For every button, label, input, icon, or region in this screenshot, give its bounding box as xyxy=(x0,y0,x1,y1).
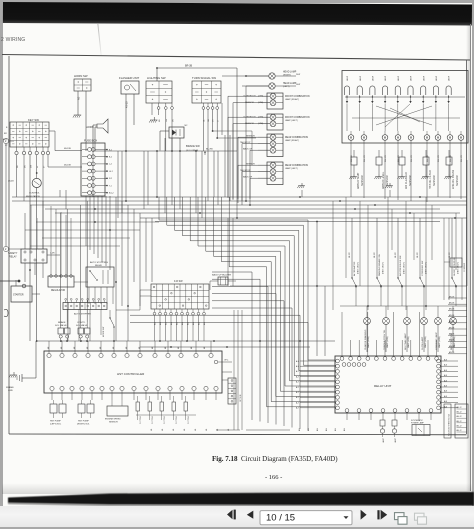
sensor ENGINE SPEED SENSOR xyxy=(105,400,128,424)
label (solenoid starting sw) xyxy=(444,404,451,438)
svg-text:(LEFT) SOL: (LEFT) SOL xyxy=(50,424,62,426)
svg-text:RELAY: RELAY xyxy=(95,264,103,267)
svg-text:FRAME: FRAME xyxy=(6,386,14,389)
connector AUTO STEPPER xyxy=(63,298,107,341)
svg-text:2: 2 xyxy=(5,248,7,251)
svg-text:AW: AW xyxy=(316,428,319,431)
svg-text:AIR CLEANER: AIR CLEANER xyxy=(405,172,408,189)
svg-text:AW-5B: AW-5B xyxy=(449,295,455,298)
resistor CONTROL RESISTANCE xyxy=(8,178,41,187)
switch LIGHTING SW xyxy=(146,76,175,151)
svg-text:4B: 4B xyxy=(178,346,180,349)
svg-text:(FA35 ONLY): (FA35 ONLY) xyxy=(403,262,406,274)
svg-text:STEERING SW: STEERING SW xyxy=(422,260,424,276)
svg-text:AB--12: AB--12 xyxy=(457,406,462,409)
svg-text:AB--12: AB--12 xyxy=(457,411,462,414)
wires (lamp feeders) xyxy=(222,75,270,205)
buzzer BACK UP BUZZER xyxy=(210,274,236,291)
header text WIRING xyxy=(1,37,25,43)
svg-text:LAMP: LAMP xyxy=(422,75,425,81)
wires (switch drops to buses) xyxy=(60,135,237,218)
svg-text:CUTTING: CUTTING xyxy=(140,415,142,424)
lamp HEAD LAMP (LEFT) xyxy=(242,82,300,89)
svg-text:LAMP: LAMP xyxy=(448,75,451,81)
svg-text:AW-5B: AW-5B xyxy=(449,320,455,323)
solenoid BRAKE SOL VALVE xyxy=(55,321,70,342)
svg-text:AW: AW xyxy=(334,428,337,431)
wires (right verticals) xyxy=(346,160,467,310)
svg-text:AW: AW xyxy=(298,428,301,431)
page number input box xyxy=(260,511,352,525)
svg-text:BR-3B: BR-3B xyxy=(185,65,192,68)
button last page xyxy=(377,510,387,520)
lamp GLOW LAMP xyxy=(421,306,428,352)
svg-text:WL-YR: WL-YR xyxy=(438,155,440,162)
svg-text:TURN SIGNAL SW: TURN SIGNAL SW xyxy=(192,76,216,80)
relay (systematic power) xyxy=(411,419,430,436)
wire labels (HST top) xyxy=(48,346,206,349)
svg-text:LAMP (RIGHT): LAMP (RIGHT) xyxy=(285,98,299,101)
svg-text:L4-Y: L4-Y xyxy=(109,171,114,173)
svg-text:4B-13B: 4B-13B xyxy=(64,165,71,167)
figure caption xyxy=(212,455,338,463)
svg-text:AW-5B: AW-5B xyxy=(449,339,455,342)
svg-text:LAMP: LAMP xyxy=(372,75,375,81)
icon new window xyxy=(395,513,408,525)
svg-text:BL-3W: BL-3W xyxy=(206,149,214,151)
flasher unit xyxy=(119,76,139,151)
node 2 (left edge lower) xyxy=(4,309,8,316)
wires (solenoid feeders) xyxy=(61,201,87,322)
svg-text:HEAD LAMP: HEAD LAMP xyxy=(283,71,297,74)
wires (mid feeders down) xyxy=(115,197,152,341)
svg-text:LAMP (LEFT): LAMP (LEFT) xyxy=(285,167,298,170)
lamp NEUTRAL LAMP xyxy=(404,306,411,352)
svg-text:(24W): (24W) xyxy=(258,102,264,104)
svg-text:AUTO STEPPER: AUTO STEPPER xyxy=(74,313,91,316)
svg-text:10 / 15: 10 / 15 xyxy=(266,513,295,524)
wires (fuse box feeders down) xyxy=(86,196,110,270)
sensor ENG OIL PRESS xyxy=(444,150,458,189)
switch MODE SW xyxy=(103,310,115,341)
toolbar icons xyxy=(0,505,474,529)
svg-text:LAMP: LAMP xyxy=(384,75,387,81)
svg-text:SOL VALVE: SOL VALVE xyxy=(76,324,88,327)
wires (left feeders down) xyxy=(29,188,37,342)
svg-text:LAMP (24W): LAMP (24W) xyxy=(438,336,441,348)
svg-text:1-5R: 1-5R xyxy=(50,253,55,255)
svg-text:LAMP: LAMP xyxy=(382,437,385,443)
svg-text:AB--12: AB--12 xyxy=(457,420,462,423)
svg-text:SHORT COUPLER: SHORT COUPLER xyxy=(454,257,456,276)
svg-text:(24W): (24W) xyxy=(258,96,264,98)
wire bundle B (center to bottom) xyxy=(130,272,308,431)
wires (center verticals) xyxy=(234,310,242,430)
svg-text:(FA35 ONLY): (FA35 ONLY) xyxy=(357,262,360,274)
wire bus 2 xyxy=(12,200,467,202)
svg-text:REAR COMBINATION: REAR COMBINATION xyxy=(285,164,308,167)
wire (accessory bus) xyxy=(93,149,237,152)
page right edge shadow xyxy=(466,24,471,491)
wires (bottom interconnect) xyxy=(216,372,290,430)
svg-text:RELAY UNIT: RELAY UNIT xyxy=(374,384,392,388)
svg-text:(24W): (24W) xyxy=(258,117,264,119)
svg-text:4B: 4B xyxy=(217,428,219,431)
svg-text:AW-5B: AW-5B xyxy=(449,345,455,348)
svg-text:4B: 4B xyxy=(173,428,175,431)
lamps (relay unit bottom) xyxy=(380,420,397,443)
svg-text:SENSOR: SENSOR xyxy=(361,175,364,186)
svg-text:5B-YR: 5B-YR xyxy=(395,252,397,258)
svg-text:GB: GB xyxy=(208,118,210,122)
svg-text:24W: 24W xyxy=(296,84,300,86)
svg-text:GL: GL xyxy=(204,118,206,122)
page bottom dark wedge xyxy=(0,489,474,509)
ground (harness mid 2) xyxy=(385,183,392,197)
svg-text:OPTION: OPTION xyxy=(240,394,242,402)
svg-text:(24W): (24W) xyxy=(258,123,264,125)
lamp CHARGE WARNING xyxy=(364,306,371,352)
svg-text:2W: 2W xyxy=(31,165,33,168)
svg-text:CONT'D: CONT'D xyxy=(77,322,86,324)
black header bar xyxy=(2,2,471,25)
svg-text:SENSOR: SENSOR xyxy=(245,102,254,104)
switch BRAKE SW xyxy=(186,144,206,155)
button next page xyxy=(361,510,367,520)
svg-text:SOLENOID STARTING SW: SOLENOID STARTING SW xyxy=(448,414,451,436)
svg-text:ST: ST xyxy=(5,145,8,147)
frame ground xyxy=(6,341,36,392)
wire bundle A (buses to relay unit) xyxy=(159,197,335,407)
svg-text:LAMP: LAMP xyxy=(410,75,413,81)
svg-text:GND: GND xyxy=(8,390,13,392)
svg-text:WL-YR: WL-YR xyxy=(364,155,366,162)
svg-text:SENSOR: SENSOR xyxy=(245,123,254,125)
svg-text:HST PUMP: HST PUMP xyxy=(50,421,61,423)
switch SHORT COUPLER xyxy=(449,218,460,306)
svg-text:GY: GY xyxy=(213,118,215,122)
icon window disabled xyxy=(415,513,427,524)
wire bus 1 xyxy=(12,196,467,198)
svg-text:WL-YR: WL-YR xyxy=(461,155,463,162)
svg-text:LAMP: LAMP xyxy=(435,75,438,81)
page fold line xyxy=(97,24,101,55)
svg-text:(FA35 ONLY): (FA35 ONLY) xyxy=(457,262,460,274)
svg-text:HORN: HORN xyxy=(86,125,94,129)
window border top xyxy=(0,0,474,3)
svg-text:4B: 4B xyxy=(204,346,206,349)
svg-text:CHARGE WARNING: CHARGE WARNING xyxy=(364,329,367,350)
wire labels (bottom right row) xyxy=(298,428,346,431)
svg-text:LAMP (24W): LAMP (24W) xyxy=(407,336,410,348)
switch ALTERNATOR xyxy=(349,218,360,306)
svg-text:5B-YR: 5B-YR xyxy=(417,252,419,258)
wires (left cross runs) xyxy=(25,221,159,246)
svg-text:AB--12: AB--12 xyxy=(457,424,462,427)
svg-text:4B: 4B xyxy=(184,428,186,431)
svg-text:4B: 4B xyxy=(151,428,153,431)
window border right xyxy=(472,0,474,529)
svg-text:CUTTING: CUTTING xyxy=(176,415,178,424)
svg-text:4B: 4B xyxy=(162,428,164,431)
window border left xyxy=(0,0,3,529)
svg-text:(RIGHT): (RIGHT) xyxy=(283,74,291,76)
svg-text:(LEFT): (LEFT) xyxy=(283,86,290,88)
svg-text:COUPLER: COUPLER xyxy=(464,262,466,272)
svg-text:CUTTING: CUTTING xyxy=(152,415,154,424)
svg-text:4B: 4B xyxy=(228,428,230,431)
svg-text:2B: 2B xyxy=(17,165,19,168)
svg-text:5B-YR: 5B-YR xyxy=(349,252,351,258)
svg-text:FRONT COMBINATION: FRONT COMBINATION xyxy=(285,116,310,119)
svg-text:LAMP: LAMP xyxy=(359,75,362,81)
svg-text:HORN SW: HORN SW xyxy=(74,74,88,78)
svg-text:4B: 4B xyxy=(165,346,167,349)
svg-text:HST OIL FILTER: HST OIL FILTER xyxy=(429,170,432,189)
svg-text:T-1: T-1 xyxy=(109,185,112,187)
schematic border frame xyxy=(9,56,467,435)
lamp FRONT COMBINATION LAMP (LEFT) xyxy=(243,114,310,130)
connector (HST option) xyxy=(228,378,242,404)
regulator xyxy=(48,206,88,292)
svg-text:4B: 4B xyxy=(152,346,154,349)
svg-text:LAMP (RIGHT): LAMP (RIGHT) xyxy=(285,139,299,142)
svg-text:(RIGHT) SOL: (RIGHT) SOL xyxy=(77,424,90,426)
svg-text:R-2: R-2 xyxy=(109,178,112,180)
svg-text:Bat-2: Bat-2 xyxy=(109,192,114,195)
svg-text:HEAD LAMP: HEAD LAMP xyxy=(283,82,297,85)
ground (harness mid 1) xyxy=(297,183,304,197)
svg-text:CUTTING: CUTTING xyxy=(164,415,166,424)
svg-text:AB--12: AB--12 xyxy=(457,415,462,418)
wires (meter panel to bus) xyxy=(351,150,461,202)
svg-text:B: B xyxy=(6,127,8,129)
relay unit xyxy=(296,312,458,420)
svg-text:LAMP (24W): LAMP (24W) xyxy=(386,336,389,348)
svg-text:KEY SW: KEY SW xyxy=(28,118,39,122)
svg-text:AW-5B: AW-5B xyxy=(449,302,455,305)
motor STARTER xyxy=(0,280,40,302)
switch TURN SIGNAL SW xyxy=(192,76,256,165)
svg-text:A-Y: A-Y xyxy=(296,370,300,373)
svg-text:CUTTING: CUTTING xyxy=(188,415,190,424)
page number xyxy=(265,474,282,481)
page right edge line xyxy=(470,24,471,491)
svg-text:4B: 4B xyxy=(159,119,161,122)
wires (F-R SW left stubs) xyxy=(116,290,151,310)
svg-text:AW-5B: AW-5B xyxy=(449,314,455,317)
svg-text:4B: 4B xyxy=(195,428,197,431)
svg-text:WATER TEMP: WATER TEMP xyxy=(357,172,360,189)
svg-text:4B-13B: 4B-13B xyxy=(64,148,71,150)
svg-text:FUSE BOX: FUSE BOX xyxy=(84,139,97,143)
svg-text:4B: 4B xyxy=(206,428,208,431)
svg-text:3W: 3W xyxy=(166,119,168,122)
switch STEERING SW xyxy=(417,218,428,306)
svg-text:SENSOR: SENSOR xyxy=(433,175,436,186)
header rule / schematic frame top xyxy=(2,55,470,61)
svg-text:AB: AB xyxy=(78,96,81,100)
svg-text:SENSOR: SENSOR xyxy=(109,422,118,424)
svg-text:FRONT COMBINATION: FRONT COMBINATION xyxy=(285,95,310,98)
svg-text:WL-YR: WL-YR xyxy=(385,155,387,162)
wire bus 4 xyxy=(45,208,440,210)
switch PARKING BRAKE SW xyxy=(374,218,385,306)
svg-text:N2: N2 xyxy=(185,125,189,127)
lamp REAR COMBINATION LAMP (RIGHT) xyxy=(240,134,308,157)
svg-text:RESISTANCE: RESISTANCE xyxy=(26,195,40,198)
svg-text:A-Y: A-Y xyxy=(296,360,300,363)
svg-text:A-Y: A-Y xyxy=(296,396,300,399)
svg-text:2Y: 2Y xyxy=(44,165,46,168)
svg-text:SENSOR: SENSOR xyxy=(386,175,389,186)
svg-text:GLOW LAMP: GLOW LAMP xyxy=(421,336,424,350)
svg-text:AW-5B: AW-5B xyxy=(449,333,455,336)
svg-text:AW-5B: AW-5B xyxy=(449,326,455,329)
page bottom shadow fade xyxy=(2,483,472,494)
svg-text:G: G xyxy=(217,120,219,122)
wire (lighting feed bus) xyxy=(156,65,237,152)
relay (brake relay) xyxy=(160,125,188,151)
meter panel unit xyxy=(342,71,468,163)
svg-text:AW-5B: AW-5B xyxy=(449,308,455,311)
sensor WATER LEVEL xyxy=(374,150,388,189)
svg-text:A-Y: A-Y xyxy=(296,407,300,410)
svg-text:AB--12: AB--12 xyxy=(457,429,462,432)
lamp STEERING LAMP xyxy=(435,306,442,352)
wire bus 6 xyxy=(140,217,467,219)
relay BACK UP RELAY xyxy=(444,258,466,272)
wires (center-right drops) xyxy=(228,201,333,356)
wire bus 3 xyxy=(30,204,467,206)
svg-text:STEERING LAMP: STEERING LAMP xyxy=(435,332,438,350)
legend box xyxy=(455,404,468,438)
svg-text:AW: AW xyxy=(325,428,328,431)
svg-text:5B-YR: 5B-YR xyxy=(449,252,451,258)
wire (right mid bus) xyxy=(230,285,467,307)
solenoid HST PUMP (LEFT) SOL xyxy=(50,400,66,426)
svg-text:BACK UP BUZZER: BACK UP BUZZER xyxy=(212,274,231,277)
svg-text:LAMP: LAMP xyxy=(346,75,349,81)
sensor AIR CLEANER xyxy=(397,150,411,189)
svg-text:REAR COMBINATION: REAR COMBINATION xyxy=(285,136,308,139)
svg-text:AW: AW xyxy=(343,428,346,431)
svg-text:HST CONTROLLER: HST CONTROLLER xyxy=(117,372,145,376)
svg-text:LAMP: LAMP xyxy=(394,437,397,443)
lamp FRONT COMBINATION LAMP (RIGHT) xyxy=(243,93,310,109)
switch F-R SW xyxy=(140,280,209,341)
ground (horn switch) xyxy=(73,112,81,118)
svg-text:REGULATOR: REGULATOR xyxy=(51,289,65,292)
svg-text:24W: 24W xyxy=(296,74,300,76)
svg-text:AW-5B: AW-5B xyxy=(449,351,455,354)
button first page xyxy=(227,510,236,520)
button previous page xyxy=(247,511,254,519)
switch HORN SW xyxy=(74,74,91,151)
svg-text:ALTERNATOR: ALTERNATOR xyxy=(353,261,356,276)
wire labels (bottom row) xyxy=(151,428,230,431)
wire bus 5 xyxy=(55,212,460,214)
sensor HST OIL FILTER xyxy=(421,150,435,189)
solenoid CONTROL SOL VALVE xyxy=(76,322,90,342)
svg-text:FLASHER UNIT: FLASHER UNIT xyxy=(119,76,139,80)
lamp REST POSITION xyxy=(450,306,457,352)
svg-text:4B-3B: 4B-3B xyxy=(126,101,129,108)
svg-text:POWER LAMP: POWER LAMP xyxy=(411,422,425,425)
lamp TORQUE CONV OIL xyxy=(383,306,390,352)
wire (lower-left bus) xyxy=(36,340,335,348)
node 2 (left edge top) xyxy=(3,138,14,246)
svg-text:BRAKE: BRAKE xyxy=(58,321,66,324)
svg-text:LAMP (24W): LAMP (24W) xyxy=(424,336,427,348)
solenoid HST PUMP (RIGHT) SOL xyxy=(77,400,94,426)
node 2 (left edge middle) xyxy=(3,246,21,251)
svg-text:WATER LEVEL: WATER LEVEL xyxy=(382,171,385,189)
relay AUTO STOPPING RELAY xyxy=(86,261,114,304)
svg-text:LAMP: LAMP xyxy=(397,75,400,81)
svg-text:2L: 2L xyxy=(37,165,39,168)
svg-text:L-4: L-4 xyxy=(109,164,112,166)
toolbar background xyxy=(0,506,474,527)
svg-text:F-R SW: F-R SW xyxy=(174,280,183,283)
svg-text:BR: BR xyxy=(4,133,7,135)
sensor WATER TEMP xyxy=(349,150,363,189)
svg-text:(FA35 ONLY): (FA35 ONLY) xyxy=(382,262,385,274)
controller HST CONTROLLER xyxy=(44,341,232,400)
svg-text:SOL VALVE: SOL VALVE xyxy=(55,324,67,327)
svg-text:AIR PRESSURE SW: AIR PRESSURE SW xyxy=(399,255,402,276)
switch KEY SW xyxy=(3,118,82,341)
svg-text:4B: 4B xyxy=(61,346,63,349)
svg-text:PARKING BRAKE SW: PARKING BRAKE SW xyxy=(378,253,381,276)
svg-text:AUTO STOPPING: AUTO STOPPING xyxy=(90,261,108,264)
switch AIR PRESSURE SW xyxy=(395,218,406,306)
wires (right edge stubs) xyxy=(448,295,467,354)
svg-text:CONTROL: CONTROL xyxy=(29,193,40,195)
svg-text:LIGHTING SW: LIGHTING SW xyxy=(147,76,166,80)
window border bottom xyxy=(0,527,474,529)
svg-text:SENSOR: SENSOR xyxy=(456,175,459,186)
svg-text:AW: AW xyxy=(307,428,310,431)
svg-text:WL-YR: WL-YR xyxy=(351,155,353,162)
svg-text:OP-1: OP-1 xyxy=(224,360,228,362)
svg-text:A-Y: A-Y xyxy=(296,365,300,368)
relay SAFETY RELAY xyxy=(8,201,60,282)
svg-text:MODE SW: MODE SW xyxy=(103,327,105,337)
svg-text:5B-YR: 5B-YR xyxy=(374,252,376,258)
svg-text:4B: 4B xyxy=(191,346,193,349)
svg-text:WL-YR: WL-YR xyxy=(411,155,413,162)
fuse box xyxy=(81,139,114,197)
lamp REAR COMBINATION LAMP (LEFT) xyxy=(240,162,308,185)
svg-text:ENG OIL PRESS: ENG OIL PRESS xyxy=(452,169,455,189)
svg-text:LAMP (LEFT): LAMP (LEFT) xyxy=(285,119,298,122)
wire bus 7 xyxy=(155,221,440,223)
label control resistance xyxy=(26,193,40,198)
svg-text:RELAY: RELAY xyxy=(9,256,17,259)
svg-text:HST PUMP: HST PUMP xyxy=(78,421,89,423)
svg-text:4B-4B: 4B-4B xyxy=(8,181,14,183)
svg-text:A-Y: A-Y xyxy=(296,381,300,384)
horn xyxy=(86,119,108,151)
ground (lighting switch) xyxy=(149,117,157,123)
svg-text:STARTER: STARTER xyxy=(13,294,24,297)
svg-text:SENSOR: SENSOR xyxy=(409,175,412,186)
svg-text:3R: 3R xyxy=(173,119,175,122)
svg-text:2R: 2R xyxy=(25,165,27,168)
svg-text:BRAKE SW: BRAKE SW xyxy=(186,144,200,148)
svg-text:NEUTRAL LAMP: NEUTRAL LAMP xyxy=(404,333,407,350)
